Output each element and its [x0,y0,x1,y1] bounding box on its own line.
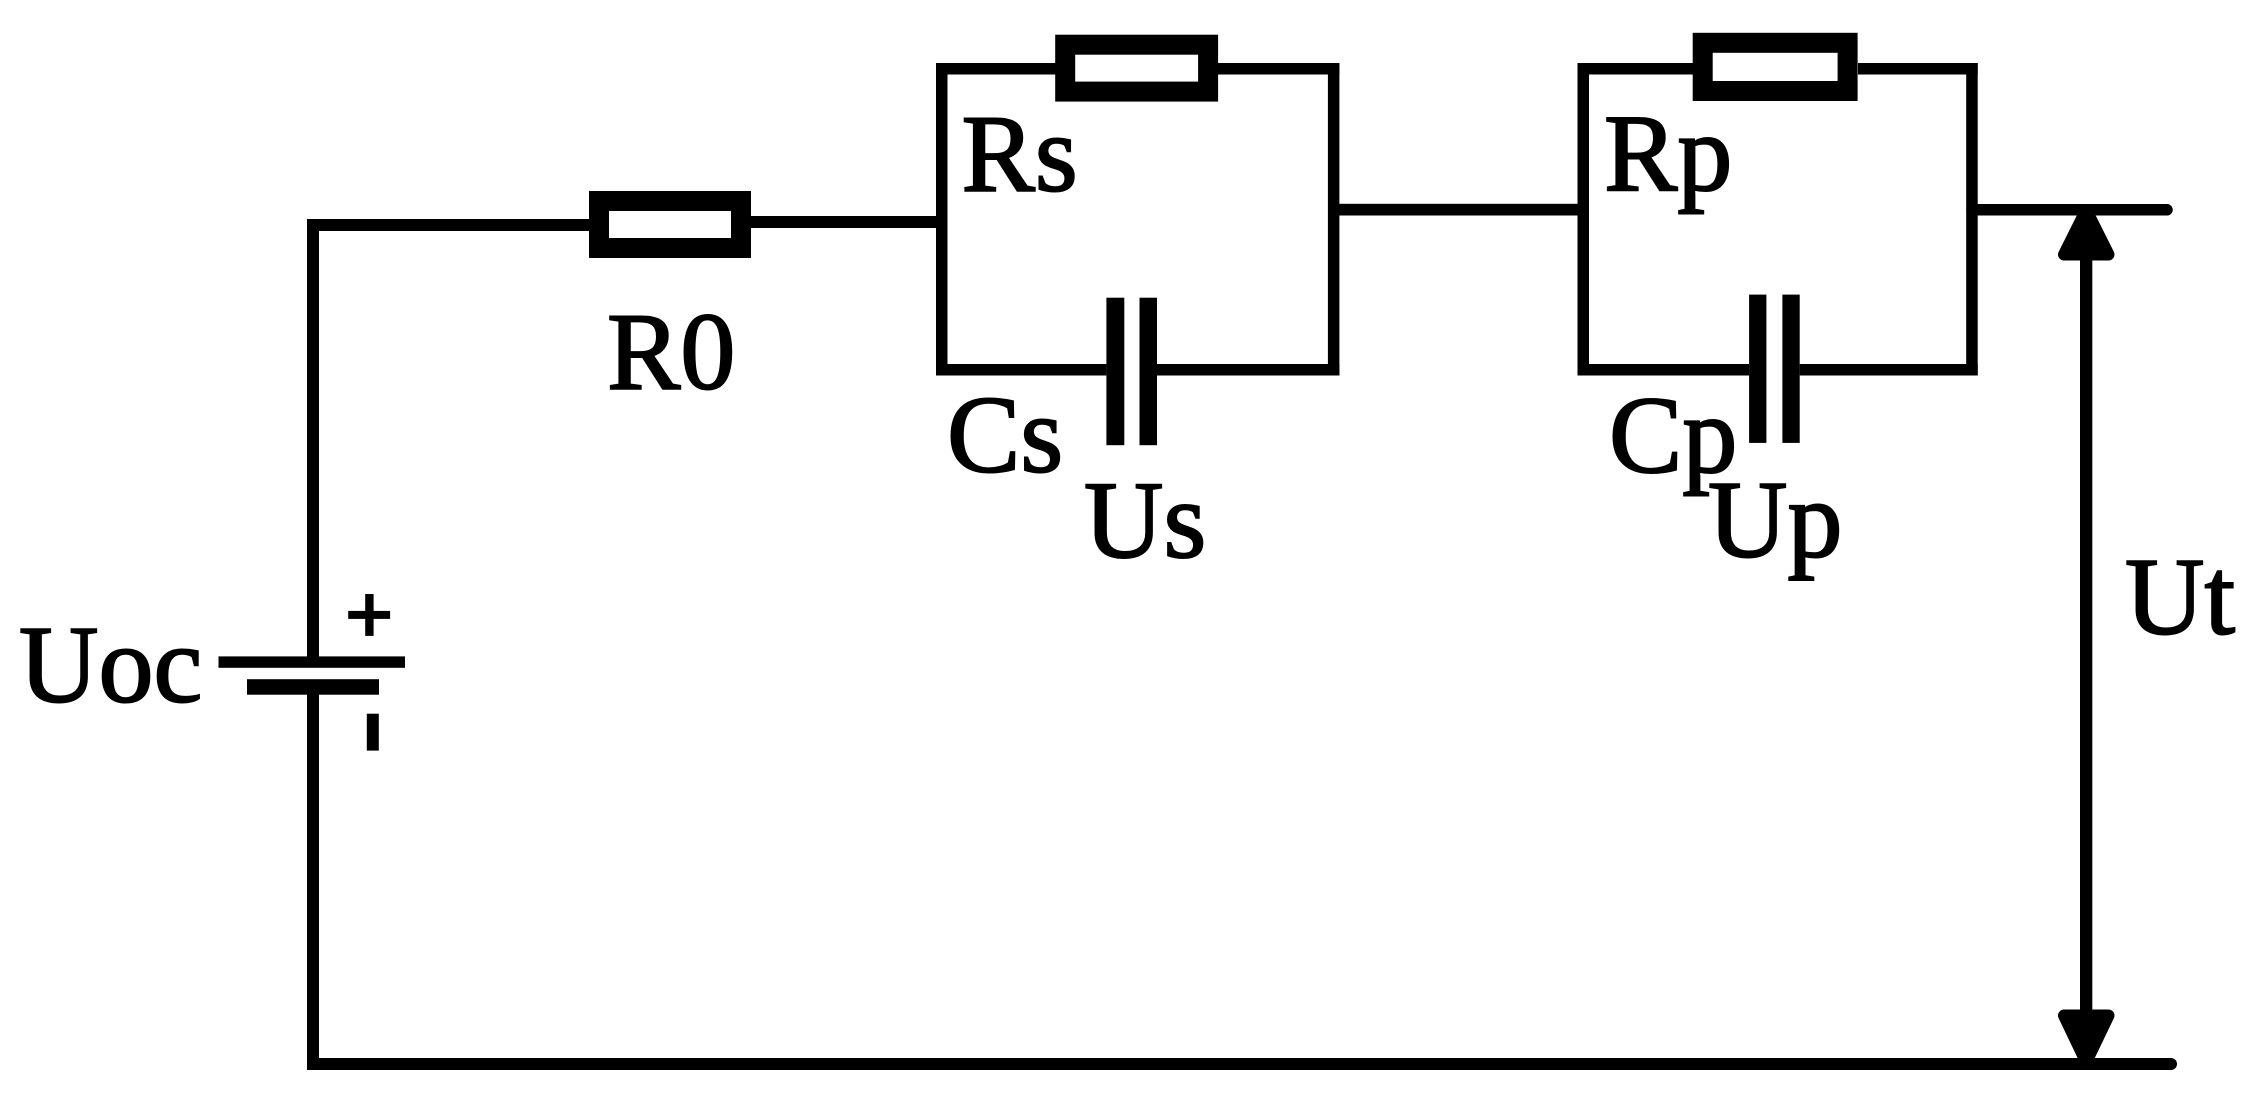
svg-text:Up: Up [1708,459,1842,581]
svg-text:R0: R0 [607,291,735,413]
svg-text:Cs: Cs [947,374,1063,496]
svg-text:Uoc: Uoc [19,604,202,726]
svg-text:Ut: Ut [2125,536,2235,658]
svg-text:Us: Us [1084,459,1206,581]
svg-text:Rs: Rs [962,93,1078,215]
svg-text:Rp: Rp [1604,92,1732,214]
